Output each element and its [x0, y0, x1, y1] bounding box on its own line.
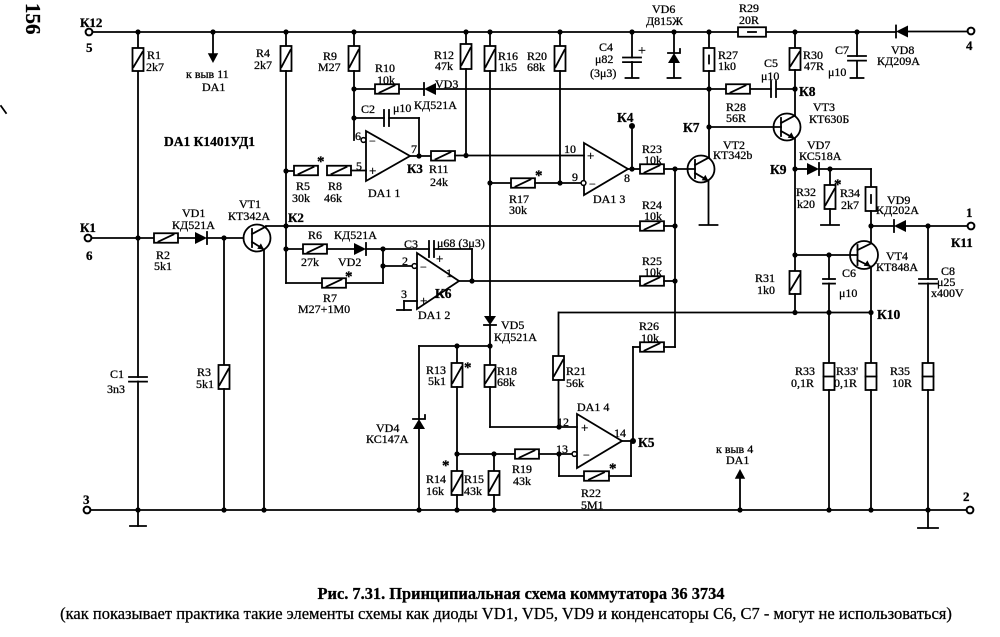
svg-text:(3μ3): (3μ3) [590, 66, 616, 80]
svg-text:VD2: VD2 [338, 255, 361, 269]
svg-text:46k: 46k [324, 191, 342, 205]
svg-text:3: 3 [401, 287, 407, 301]
svg-text:C3: C3 [404, 237, 418, 251]
resistor R25 [640, 276, 664, 286]
svg-text:КД209А: КД209А [877, 54, 920, 68]
svg-text:(как показывает практика такие: (как показывает практика такие элементы … [60, 604, 952, 623]
svg-text:10k: 10k [641, 331, 659, 345]
svg-text:4: 4 [966, 38, 973, 53]
svg-text:μ10: μ10 [761, 69, 779, 83]
svg-text:КД202А: КД202А [876, 203, 919, 217]
ground under C1 node [137, 510, 139, 526]
resistor R30 [794, 32, 796, 48]
svg-text:−: − [589, 177, 596, 191]
svg-text:Д815Ж: Д815Ж [646, 14, 683, 28]
terminal 2 [967, 507, 974, 514]
terminal 3 [84, 507, 91, 514]
svg-text:x400V: x400V [931, 286, 964, 300]
node K2 [266, 225, 640, 227]
wire pin13 row [457, 453, 515, 455]
svg-text:К8: К8 [799, 84, 816, 99]
resistor R3 [223, 238, 225, 365]
svg-text:DA1: DA1 [202, 80, 225, 94]
terminal K1 (pin 6) [85, 235, 92, 242]
resistor R7 [286, 282, 322, 284]
resistor R1 [137, 32, 139, 377]
svg-text:+: + [369, 163, 376, 178]
svg-text:*: * [317, 154, 325, 170]
terminal 4 [968, 28, 975, 35]
transistor VT4 [850, 241, 878, 269]
resistor R23 [628, 168, 640, 170]
ground at VT2 emitter [708, 181, 710, 224]
svg-text:DA1 3: DA1 3 [593, 192, 625, 206]
diode VD2 [354, 243, 366, 255]
diode VD5 [484, 316, 496, 325]
svg-text:68k: 68k [527, 60, 545, 74]
svg-text:+: + [587, 148, 594, 163]
svg-text:14: 14 [614, 426, 626, 440]
svg-text:2: 2 [402, 254, 408, 268]
svg-text:2k7: 2k7 [841, 198, 859, 212]
svg-text:К10: К10 [877, 307, 901, 322]
op-amp DA1 3 [584, 143, 628, 195]
op-amp DA1 2 [417, 253, 459, 309]
node K10 [868, 310, 873, 315]
svg-text:К5: К5 [638, 435, 655, 450]
zener VD6 [673, 32, 675, 53]
svg-text:R11: R11 [429, 162, 449, 176]
arrow to pin 4 DA1 [737, 507, 742, 512]
capacitor C1 [129, 376, 147, 378]
svg-text:43k: 43k [464, 484, 482, 498]
svg-text:30k: 30k [292, 191, 310, 205]
svg-text:Рис. 7.31. Принципиальная схем: Рис. 7.31. Принципиальная схема коммутат… [318, 584, 725, 603]
node K3 [410, 155, 431, 157]
svg-text:8: 8 [624, 171, 630, 185]
svg-text:12: 12 [557, 415, 569, 429]
svg-text:К2: К2 [288, 210, 304, 225]
node K4 [629, 123, 635, 129]
svg-text:3n3: 3n3 [107, 382, 125, 396]
svg-text:1: 1 [446, 266, 452, 280]
svg-text:68k: 68k [497, 375, 515, 389]
arrow to pin 11 DA1 [210, 29, 215, 34]
svg-text:16k: 16k [426, 484, 444, 498]
svg-text:10k: 10k [377, 73, 395, 87]
wire y=346 node row [419, 345, 490, 347]
svg-text:10k: 10k [644, 265, 662, 279]
capacitor C3 [428, 241, 430, 257]
svg-text:2k7: 2k7 [254, 58, 272, 72]
svg-text:3: 3 [83, 492, 90, 507]
ground at pin 3 DA1 2 [403, 301, 405, 310]
diode VD1 [195, 232, 207, 244]
resistor R22 feedback [558, 454, 560, 476]
svg-text:К12: К12 [80, 15, 102, 30]
op-amp DA1 4 [577, 414, 622, 468]
resistor R2 [91, 237, 154, 239]
svg-text:DA1 4: DA1 4 [577, 400, 609, 414]
resistor R33 [828, 313, 830, 364]
svg-text:20R: 20R [739, 13, 759, 27]
svg-text:6: 6 [355, 129, 361, 143]
svg-text:VD3: VD3 [435, 77, 458, 91]
diode VD4 (zener) [418, 346, 420, 419]
svg-text:30k: 30k [509, 203, 527, 217]
svg-text:+: + [436, 251, 443, 266]
svg-text:C6: C6 [842, 266, 856, 280]
svg-text:0,1R: 0,1R [791, 376, 814, 390]
resistor R33' [870, 313, 872, 364]
svg-text:КД521А: КД521А [414, 98, 457, 112]
node K9 [792, 166, 797, 171]
svg-text:*: * [535, 168, 543, 184]
svg-text:КД521А: КД521А [172, 218, 215, 232]
resistor R32 [829, 169, 831, 185]
resistor R14 [456, 454, 458, 471]
wire VD2 node to pin 2 [382, 249, 384, 266]
ground at bottom right [925, 507, 930, 512]
wire rail y=312 (R21 top to K10) [559, 312, 871, 314]
svg-text:1k5: 1k5 [499, 60, 517, 74]
svg-text:КС147А: КС147А [366, 432, 409, 446]
resistor R16 [489, 32, 491, 46]
svg-text:−: − [420, 260, 427, 274]
resistor R26 [633, 346, 640, 348]
svg-text:*: * [464, 360, 472, 376]
transistor VT3 [774, 114, 801, 141]
capacitor C2 [354, 117, 384, 119]
op-amp DA1 1 [366, 131, 410, 181]
svg-text:К7: К7 [683, 120, 700, 135]
svg-text:+: + [638, 44, 646, 59]
svg-text:R6: R6 [308, 228, 322, 242]
svg-text:КС518А: КС518А [799, 149, 842, 163]
wire K7 vertical [708, 89, 710, 158]
resistor R17 [490, 182, 511, 184]
svg-text:2: 2 [963, 489, 970, 504]
svg-text:К4: К4 [617, 110, 634, 125]
capacitor C8 [927, 226, 929, 279]
svg-text:DA1 1: DA1 1 [368, 186, 400, 200]
terminal K12 (pin 5) [86, 29, 93, 36]
node K8 [792, 86, 797, 91]
wire pin12 row [490, 426, 577, 428]
svg-text:5: 5 [356, 159, 362, 173]
diode VD3 [424, 83, 436, 95]
svg-text:43k: 43k [513, 474, 531, 488]
node K7 [706, 124, 711, 129]
resistor R21 [558, 313, 560, 357]
svg-text:*: * [609, 461, 617, 477]
svg-text:13: 13 [556, 442, 568, 456]
svg-text:КД521А: КД521А [334, 228, 377, 242]
resistor R18 [489, 346, 491, 365]
svg-text:КТ342b: КТ342b [713, 148, 752, 162]
svg-text:К3: К3 [407, 161, 423, 176]
svg-text:μ10: μ10 [828, 65, 846, 79]
svg-text:10: 10 [564, 142, 576, 156]
resistor R28 [726, 84, 750, 94]
capacitor C6 [828, 255, 830, 279]
diode VD9 [871, 225, 894, 227]
resistor R20 [559, 32, 561, 46]
svg-text:0,1R: 0,1R [834, 376, 857, 390]
svg-text:1k0: 1k0 [757, 283, 775, 297]
svg-text:КТ342А: КТ342А [228, 209, 270, 223]
wire mid rail y=89 (R10/VD3 feed) [354, 88, 375, 90]
resistor R9 [353, 32, 355, 46]
svg-text:К9: К9 [770, 162, 787, 177]
capacitor C7 [856, 32, 858, 56]
transistor VT2 [675, 168, 695, 170]
svg-text:24k: 24k [430, 175, 448, 189]
resistor R35 [923, 363, 934, 390]
svg-text:47R: 47R [804, 59, 824, 73]
resistor R31 [790, 271, 801, 294]
svg-text:μ82: μ82 [595, 52, 613, 66]
svg-text:μ10: μ10 [839, 286, 857, 300]
wire VT4 base row [795, 254, 858, 256]
svg-text:5k1: 5k1 [154, 259, 172, 273]
svg-text:К6: К6 [435, 286, 452, 301]
svg-text:6: 6 [86, 248, 93, 263]
transistor VT1 [244, 225, 271, 252]
svg-text:+: + [420, 293, 427, 308]
wire bottom rail [90, 509, 966, 511]
svg-text:9: 9 [572, 170, 578, 184]
svg-text:10R: 10R [892, 376, 912, 390]
svg-text:М27+1М0: М27+1М0 [298, 302, 350, 316]
node K6 [459, 280, 640, 282]
svg-text:*: * [442, 458, 450, 474]
svg-text:k20: k20 [797, 197, 815, 211]
svg-text:DA1: DA1 [726, 453, 749, 467]
resistor R13 [456, 346, 458, 363]
svg-text:μ10: μ10 [393, 101, 411, 115]
svg-text:μ68 (3μ3): μ68 (3μ3) [437, 236, 485, 250]
svg-text:DA1 2: DA1 2 [418, 308, 450, 322]
capacitor C4 [631, 32, 633, 58]
svg-text:1: 1 [966, 205, 973, 220]
svg-text:*: * [345, 269, 353, 285]
svg-text:К1: К1 [80, 220, 96, 235]
svg-text:−: − [583, 448, 590, 462]
svg-text:27k: 27k [301, 255, 319, 269]
svg-text:156: 156 [21, 3, 45, 35]
svg-text:+: + [581, 420, 588, 435]
svg-text:КТ848А: КТ848А [876, 260, 918, 274]
svg-text:56k: 56k [566, 376, 584, 390]
svg-text:47k: 47k [435, 59, 453, 73]
svg-text:7: 7 [411, 142, 417, 156]
svg-text:5: 5 [86, 40, 93, 55]
resistor R5 [286, 170, 294, 172]
resistor R6 [286, 248, 303, 250]
resistor R27 [708, 32, 710, 48]
wire K9 column down [794, 169, 796, 271]
svg-text:DA1 К1401УД1: DA1 К1401УД1 [164, 134, 255, 149]
wire top supply rail [92, 31, 738, 33]
svg-text:М27: М27 [318, 60, 341, 74]
svg-text:C1: C1 [110, 367, 124, 381]
svg-text:56R: 56R [726, 111, 746, 125]
resistor R10 [375, 84, 399, 94]
node dots left column [135, 29, 140, 34]
svg-text:КД521А: КД521А [494, 330, 537, 344]
svg-text:C7: C7 [835, 43, 849, 57]
svg-text:10k: 10k [644, 153, 662, 167]
svg-text:2k7: 2k7 [146, 60, 164, 74]
resistor R12 [465, 32, 467, 44]
resistor R8 [327, 166, 351, 176]
svg-text:C5: C5 [764, 56, 778, 70]
svg-text:К11: К11 [951, 235, 973, 250]
svg-text:5М1: 5М1 [581, 498, 604, 512]
wire right bus x=675 [674, 169, 676, 347]
svg-text:−: − [369, 134, 376, 148]
stray mark at left edge [1, 106, 6, 113]
svg-text:10k: 10k [644, 209, 662, 223]
diode VD8 [896, 26, 908, 38]
wire R26 left drop to K5 [632, 347, 634, 441]
terminal 1 / K11 [968, 223, 975, 230]
svg-text:к выв 11: к выв 11 [186, 67, 229, 81]
diode VD7 [795, 168, 807, 170]
resistor R24 [640, 221, 664, 231]
wire K7 to VT3 base [709, 126, 781, 128]
svg-text:КТ630Б: КТ630Б [809, 112, 849, 126]
node K5 [622, 440, 633, 442]
svg-text:5k1: 5k1 [428, 374, 446, 388]
svg-text:5k1: 5k1 [196, 377, 214, 391]
resistor R4 [285, 32, 287, 46]
svg-text:1k0: 1k0 [718, 59, 736, 73]
capacitor C5 [770, 81, 772, 97]
resistor R29 (in line top rail) [738, 27, 766, 37]
resistor R15 [493, 454, 495, 471]
resistor R34 [870, 169, 872, 187]
svg-text:C2: C2 [361, 102, 375, 116]
resistor R11 [431, 151, 455, 161]
